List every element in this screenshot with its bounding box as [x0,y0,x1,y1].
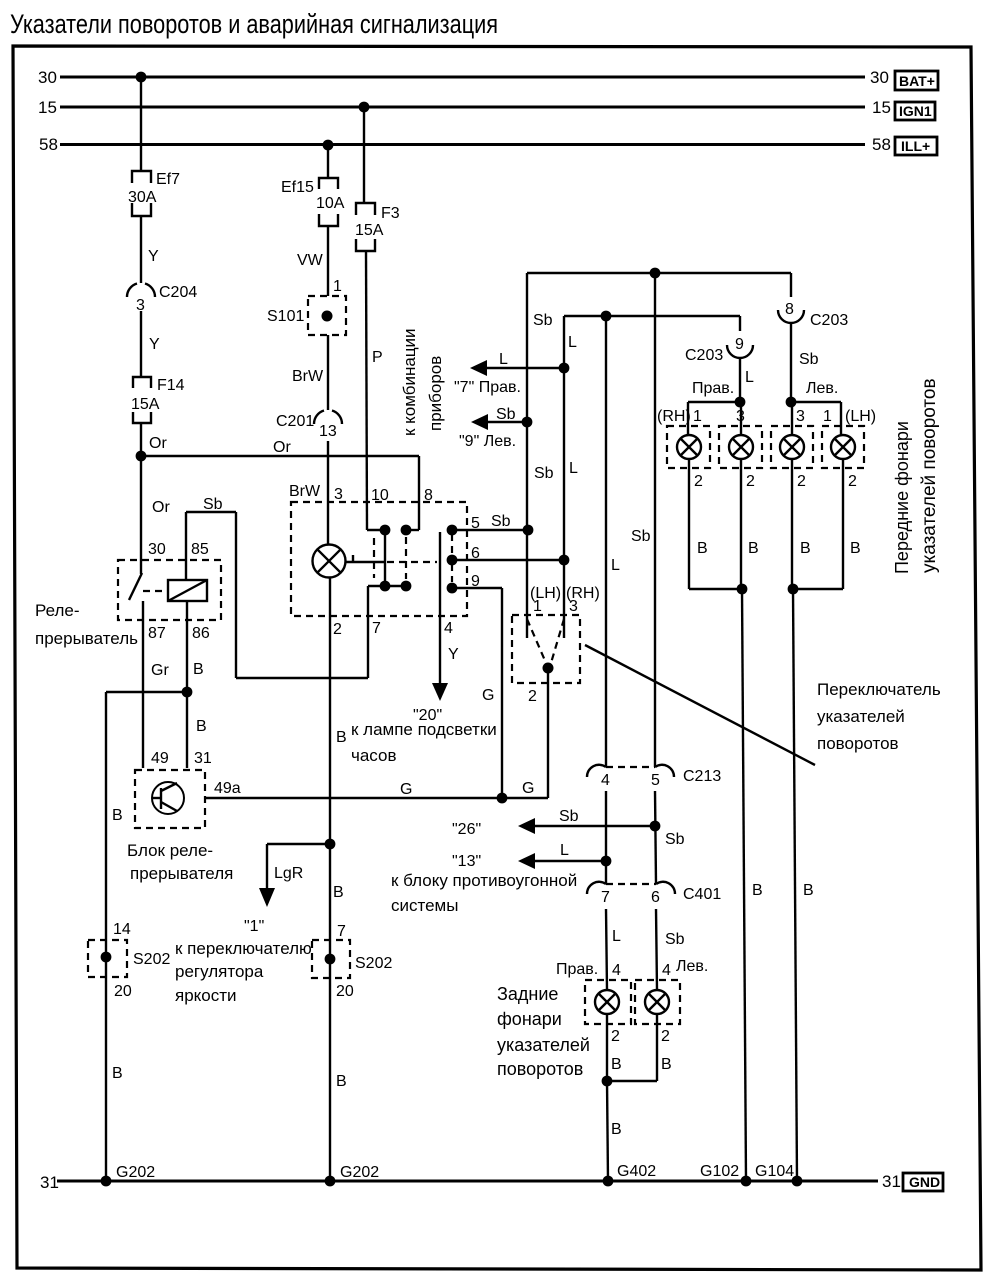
svg-text:G: G [482,687,494,704]
svg-text:Передние фонари: Передние фонари [892,421,912,574]
svg-text:B: B [850,540,861,557]
svg-text:L: L [568,334,577,351]
svg-text:Sb: Sb [631,528,651,545]
svg-text:49a: 49a [214,780,241,797]
svg-text:F14: F14 [157,377,185,394]
svg-text:87: 87 [148,625,166,642]
svg-text:Задние: Задние [497,984,558,1004]
svg-text:5: 5 [471,515,480,532]
svg-text:G104: G104 [755,1163,794,1180]
svg-text:86: 86 [192,625,210,642]
svg-text:Or: Or [152,499,170,516]
svg-text:к лампе подсветки: к лампе подсветки [351,720,497,739]
svg-text:G: G [522,780,534,797]
svg-text:8: 8 [785,301,794,318]
svg-text:31: 31 [40,1173,59,1192]
svg-text:B: B [661,1056,672,1073]
svg-text:14: 14 [113,921,131,938]
svg-text:3: 3 [736,408,745,425]
svg-text:поворотов: поворотов [817,734,899,753]
svg-text:9: 9 [471,573,480,590]
svg-text:B: B [800,540,811,557]
svg-text:3: 3 [136,297,145,314]
svg-text:1: 1 [533,598,542,615]
svg-text:Указатели поворотов и аварийна: Указатели поворотов и аварийная сигнализ… [10,9,498,39]
svg-text:B: B [752,882,763,899]
svg-text:Прав.: Прав. [556,961,598,978]
svg-text:2: 2 [661,1028,670,1045]
svg-text:Gr: Gr [151,662,169,679]
svg-text:L: L [611,557,620,574]
svg-text:L: L [499,351,508,368]
svg-text:4: 4 [612,962,621,979]
svg-text:Sb: Sb [665,831,685,848]
svg-text:4: 4 [601,772,610,789]
svg-text:"1": "1" [244,918,264,935]
svg-text:фонари: фонари [497,1009,562,1029]
svg-text:регулятора: регулятора [175,962,264,981]
svg-text:58: 58 [872,135,891,154]
svg-text:49: 49 [151,750,169,767]
svg-text:3: 3 [796,408,805,425]
svg-text:Or: Or [273,439,291,456]
svg-text:Переключатель: Переключатель [817,680,941,699]
svg-text:F3: F3 [381,205,400,222]
svg-text:BrW: BrW [292,368,324,385]
svg-text:Sb: Sb [534,465,554,482]
svg-text:7: 7 [337,923,346,940]
svg-text:прерывателя: прерывателя [130,864,233,883]
svg-text:"9" Лев.: "9" Лев. [459,433,516,450]
svg-text:L: L [569,460,578,477]
svg-text:C201: C201 [276,413,314,430]
svg-text:Sb: Sb [559,808,579,825]
svg-text:яркости: яркости [175,986,237,1005]
svg-text:6: 6 [651,889,660,906]
svg-text:85: 85 [191,541,209,558]
svg-text:S101: S101 [267,308,304,325]
svg-text:Y: Y [148,248,159,265]
svg-text:8: 8 [424,487,433,504]
svg-text:Sb: Sb [203,496,223,513]
svg-text:30: 30 [870,68,889,87]
svg-text:указателей: указателей [817,707,905,726]
svg-text:G102: G102 [700,1163,739,1180]
svg-text:Ef7: Ef7 [156,171,180,188]
svg-text:2: 2 [694,473,703,490]
svg-text:Ef15: Ef15 [281,179,314,196]
svg-text:S202: S202 [355,955,392,972]
svg-text:9: 9 [735,336,744,353]
svg-text:3: 3 [569,598,578,615]
svg-text:20: 20 [336,983,354,1000]
svg-text:4: 4 [444,620,453,637]
svg-text:"7" Прав.: "7" Прав. [454,379,521,396]
svg-text:2: 2 [611,1028,620,1045]
svg-text:Блок реле-: Блок реле- [127,841,213,860]
svg-text:L: L [612,928,621,945]
svg-text:Sb: Sb [665,931,685,948]
svg-text:15: 15 [872,98,891,117]
svg-text:L: L [745,369,754,386]
svg-text:31: 31 [194,750,212,767]
svg-text:2: 2 [528,688,537,705]
svg-text:7: 7 [601,889,610,906]
svg-text:"26": "26" [452,821,481,838]
svg-text:6: 6 [471,545,480,562]
svg-text:2: 2 [848,473,857,490]
svg-text:3: 3 [334,486,343,503]
svg-text:4: 4 [662,962,671,979]
svg-text:указателей: указателей [497,1035,590,1055]
svg-text:системы: системы [391,896,458,915]
svg-text:13: 13 [319,423,337,440]
svg-text:B: B [611,1056,622,1073]
svg-text:31: 31 [882,1172,901,1191]
svg-text:ILL+: ILL+ [901,138,930,154]
svg-text:GND: GND [909,1174,940,1190]
svg-text:G: G [400,781,412,798]
svg-text:к блоку противоугонной: к блоку противоугонной [391,871,577,890]
svg-text:C203: C203 [810,312,848,329]
svg-text:Y: Y [149,336,160,353]
svg-text:Or: Or [149,435,167,452]
svg-text:30: 30 [38,68,57,87]
svg-text:C213: C213 [683,768,721,785]
svg-text:(LH): (LH) [845,408,876,425]
svg-text:прерыватель: прерыватель [35,629,138,648]
svg-text:Лев.: Лев. [676,958,708,975]
svg-text:5: 5 [651,772,660,789]
svg-text:Sb: Sb [799,351,819,368]
svg-text:2: 2 [333,621,342,638]
svg-text:Y: Y [448,646,459,663]
svg-text:1: 1 [823,408,832,425]
svg-text:10: 10 [371,487,389,504]
svg-text:30: 30 [148,541,166,558]
svg-text:B: B [611,1121,622,1138]
svg-text:15: 15 [38,98,57,117]
svg-text:2: 2 [797,473,806,490]
svg-text:B: B [336,729,347,746]
svg-text:G202: G202 [340,1164,379,1181]
svg-text:BrW: BrW [289,483,321,500]
svg-text:указателей поворотов: указателей поворотов [919,378,940,573]
svg-text:приборов: приборов [426,356,445,431]
svg-text:B: B [697,540,708,557]
svg-text:к комбинации: к комбинации [400,328,419,436]
svg-text:15A: 15A [355,222,384,239]
svg-text:B: B [193,661,204,678]
svg-text:часов: часов [351,746,397,765]
svg-text:(RH): (RH) [657,408,691,425]
svg-text:LgR: LgR [274,865,303,882]
svg-text:P: P [372,349,383,366]
svg-text:Прав.: Прав. [692,380,734,397]
svg-text:IGN1: IGN1 [899,103,932,119]
svg-text:30A: 30A [128,189,157,206]
svg-text:B: B [333,884,344,901]
svg-text:1: 1 [333,278,342,295]
svg-text:B: B [803,882,814,899]
svg-text:L: L [560,842,569,859]
svg-text:20: 20 [114,983,132,1000]
svg-text:B: B [112,1065,123,1082]
svg-text:15A: 15A [131,396,160,413]
svg-text:1: 1 [693,408,702,425]
svg-text:7: 7 [372,620,381,637]
svg-text:Sb: Sb [496,406,516,423]
svg-text:к переключателю: к переключателю [175,939,312,958]
svg-text:поворотов: поворотов [497,1059,583,1079]
svg-text:Sb: Sb [533,312,553,329]
svg-text:C203: C203 [685,347,723,364]
svg-text:"13": "13" [452,853,481,870]
svg-text:B: B [336,1073,347,1090]
svg-text:G402: G402 [617,1163,656,1180]
svg-text:B: B [112,807,123,824]
svg-text:G202: G202 [116,1164,155,1181]
svg-text:Лев.: Лев. [806,380,838,397]
svg-text:BAT+: BAT+ [899,73,935,89]
svg-text:B: B [748,540,759,557]
svg-text:C204: C204 [159,284,197,301]
svg-text:C401: C401 [683,886,721,903]
svg-text:2: 2 [746,473,755,490]
svg-text:58: 58 [39,135,58,154]
svg-text:B: B [196,718,207,735]
svg-text:VW: VW [297,252,324,269]
svg-text:S202: S202 [133,951,170,968]
svg-text:Sb: Sb [491,513,511,530]
svg-text:Реле-: Реле- [35,601,80,620]
svg-text:10A: 10A [316,195,345,212]
